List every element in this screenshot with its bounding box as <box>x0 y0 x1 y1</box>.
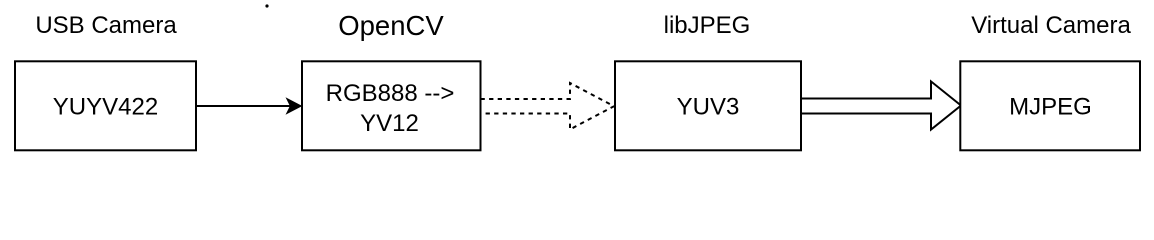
hollow block arrow libJPEG to Virtual Camera <box>801 81 961 129</box>
svg-text:USB Camera: USB Camera <box>35 12 177 39</box>
box: USB Camera node <box>15 61 196 150</box>
wire: solid arrow shaft USB Camera to OpenCV <box>196 105 291 107</box>
dashed block arrow OpenCV to libJPEG <box>481 83 615 129</box>
svg-text:OpenCV: OpenCV <box>338 10 444 41</box>
svg-text:Virtual Camera: Virtual Camera <box>971 12 1131 39</box>
stray dot above OpenCV <box>265 4 268 7</box>
box: Virtual Camera node <box>960 61 1140 150</box>
svg-text:YUV3: YUV3 <box>677 94 740 121</box>
arrowhead: solid arrow <box>288 100 300 113</box>
box: libJPEG node <box>615 61 801 150</box>
svg-text:MJPEG: MJPEG <box>1009 94 1092 121</box>
box: OpenCV node <box>302 61 481 150</box>
svg-text:YV12: YV12 <box>360 110 419 137</box>
svg-text:YUYV422: YUYV422 <box>53 94 158 121</box>
svg-text:libJPEG: libJPEG <box>664 12 751 39</box>
svg-text:RGB888 -->: RGB888 --> <box>326 80 455 107</box>
